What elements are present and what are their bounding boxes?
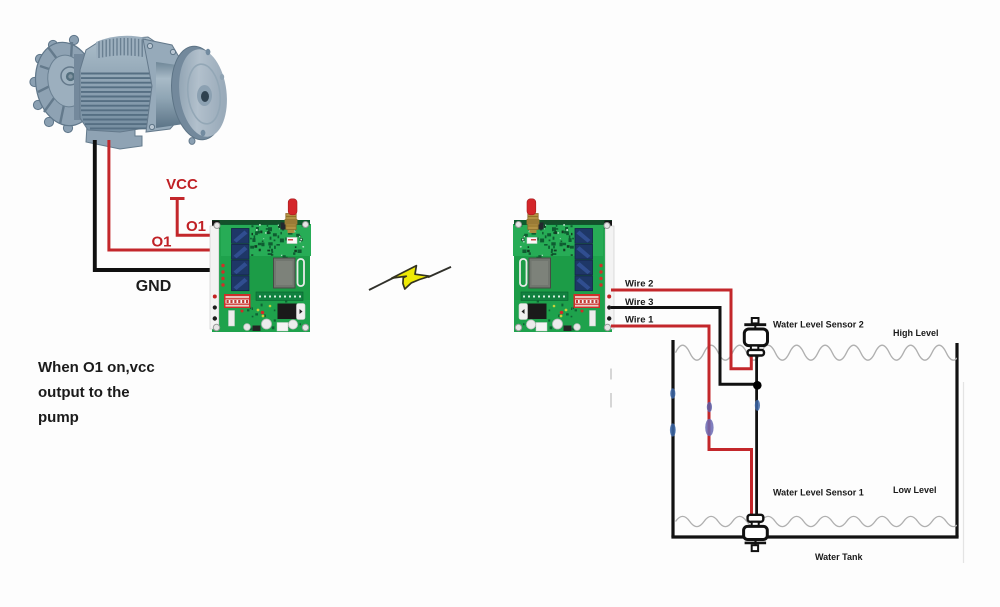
PCB board substrate bbox=[212, 220, 310, 332]
wire 3 black run bbox=[611, 308, 755, 385]
sensor chain vertical line bbox=[755, 355, 758, 517]
plate bolts bbox=[147, 43, 176, 129]
water level sensor 2 (float switch) bbox=[744, 318, 767, 356]
top cap fins bbox=[96, 36, 146, 60]
DIP switch block bbox=[224, 294, 251, 308]
base foot bbox=[86, 125, 142, 149]
antenna SMA connector bbox=[286, 214, 296, 230]
tank bottom bbox=[671, 535, 958, 538]
high water wavy line bbox=[676, 345, 961, 360]
end-bell ribs bbox=[38, 42, 84, 124]
svg-text:output to the: output to the bbox=[38, 384, 130, 401]
low water wavy line bbox=[676, 516, 961, 526]
tank left wall bbox=[671, 340, 674, 537]
stray gray dashes bbox=[610, 369, 612, 408]
body fins bbox=[81, 74, 165, 129]
flange bolt holes bbox=[206, 49, 211, 55]
neck bbox=[74, 54, 88, 120]
end-bell inner ring bbox=[44, 52, 90, 110]
wire 1 red run bbox=[611, 326, 752, 516]
body block bbox=[80, 37, 166, 132]
faint right edge line bbox=[963, 382, 965, 563]
end-bell lugs bbox=[30, 35, 79, 132]
end-bell outer bbox=[29, 37, 103, 130]
svg-text:Low Level: Low Level bbox=[893, 485, 937, 495]
tank right wall bbox=[955, 343, 958, 537]
water tank bbox=[671, 340, 958, 537]
flange inner ring bbox=[184, 62, 223, 125]
svg-text:Wire 1: Wire 1 bbox=[625, 314, 654, 325]
svg-text:VCC: VCC bbox=[166, 176, 198, 193]
svg-text:O1: O1 bbox=[186, 218, 206, 235]
water level sensor 1 (float switch) bbox=[744, 515, 768, 551]
svg-text:O1: O1 bbox=[151, 234, 171, 251]
flange hub bbox=[197, 85, 212, 106]
end plate bbox=[143, 39, 179, 132]
transmitter PCB U1 bbox=[210, 199, 311, 332]
shaft cylinder bbox=[156, 62, 184, 128]
motor M1 bbox=[29, 35, 232, 149]
svg-text:High Level: High Level bbox=[893, 328, 939, 338]
wire GND black from motor to PCB1 bbox=[95, 140, 214, 270]
RF module shield bbox=[274, 258, 296, 288]
junction node bbox=[753, 381, 762, 390]
receiver PCB U2 (mirrored) bbox=[513, 199, 614, 332]
blue droplet artifacts bbox=[670, 388, 760, 436]
svg-text:Water Level Sensor 2: Water Level Sensor 2 bbox=[773, 320, 864, 330]
wire 2 red run bbox=[611, 290, 751, 369]
wire VCC tee to PCB1 bbox=[170, 199, 214, 236]
RF link lightning bolt bbox=[369, 266, 451, 290]
flange face bbox=[174, 46, 231, 139]
svg-text:Water Level Sensor 1: Water Level Sensor 1 bbox=[773, 488, 864, 498]
antenna red cap bbox=[288, 199, 297, 215]
svg-text:Water Tank: Water Tank bbox=[815, 552, 864, 562]
wire O1 red from motor to PCB1 bbox=[109, 140, 214, 250]
terminal block strip bbox=[210, 226, 219, 329]
flange rim bbox=[166, 43, 229, 143]
svg-text:pump: pump bbox=[38, 409, 79, 426]
hub bbox=[61, 67, 79, 85]
svg-text:When O1 on,vcc: When O1 on,vcc bbox=[38, 359, 155, 376]
svg-text:Wire 2: Wire 2 bbox=[625, 278, 653, 289]
relay bank K1-K4 bbox=[232, 229, 250, 291]
svg-text:GND: GND bbox=[136, 278, 172, 295]
